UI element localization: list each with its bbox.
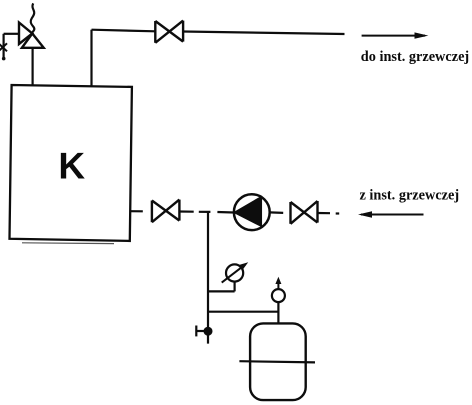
pump P impeller triangle (234, 197, 261, 226)
safety valve spring squiggle (31, 3, 35, 33)
wire: supply line left segment (92, 30, 156, 32)
drain open-end X mark (0, 43, 7, 51)
valve V2 (return gate valve at boiler) (152, 200, 180, 223)
wire: gauge branch horizontal (208, 290, 235, 292)
drain valve T bar (195, 326, 197, 337)
wire: return dash 1 (179, 210, 193, 212)
safety valve SV vertical triangle (22, 34, 44, 48)
wire: return dash after V3 (318, 212, 331, 214)
air vent circle (272, 289, 285, 302)
air vent arrow (275, 277, 281, 289)
svg-text:do inst. grzewczej: do inst. grzewczej (361, 49, 469, 65)
valve V3 (return gate valve) (291, 201, 318, 224)
boiler bottom scan ghost line (22, 242, 114, 245)
expansion vessel body (250, 323, 306, 400)
pump P circle (234, 194, 270, 230)
wire: supply line right segment (183, 32, 344, 35)
wire: return stub from boiler (130, 210, 143, 212)
wire: branch drop to vessel group (207, 212, 209, 344)
drain valve dot (204, 327, 213, 336)
svg-text:K: K (58, 146, 85, 187)
flow arrow: to installation (362, 32, 429, 38)
wire: return dash 2 with branch junction (199, 211, 211, 213)
wire: pump outlet stub (270, 211, 284, 214)
svg-text:z inst. grzewczej: z inst. grzewczej (360, 188, 460, 204)
pressure gauge M circle (226, 264, 243, 281)
safety valve inlet wire (4, 33, 19, 35)
drain valve stub (197, 330, 208, 332)
wire: gauge stem (234, 282, 236, 292)
wire: return small dash (336, 212, 340, 214)
wire: vent to vessel stub (277, 302, 279, 323)
wire: boiler top to supply line (90, 30, 92, 87)
safety valve SV horizontal triangle (19, 23, 32, 45)
wire: safety valve to boiler top (31, 48, 33, 86)
pressure gauge arrow (222, 262, 249, 282)
flow arrow: from installation (358, 211, 424, 217)
safety valve drain wire (2, 34, 4, 58)
wire: return dash 3 (217, 211, 233, 214)
expansion vessel membrane line (239, 361, 315, 362)
boiler K body (10, 85, 132, 241)
drain wire end blob (2, 57, 6, 61)
valve V1 (supply gate valve) (155, 21, 183, 43)
wire: vessel branch horizontal (208, 311, 278, 313)
